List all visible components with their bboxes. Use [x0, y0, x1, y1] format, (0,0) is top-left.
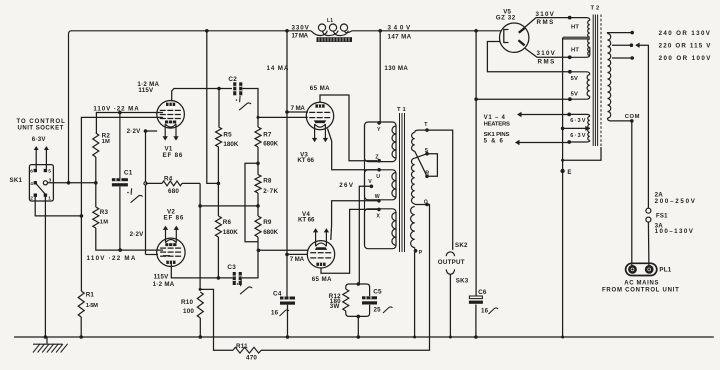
junction cathode-R8R9 node [198, 204, 202, 208]
bias network top node [357, 282, 361, 286]
wire V3 anode to Z [320, 95, 377, 161]
resistor R9 680K [255, 216, 261, 237]
wire HT top rail 330V/340V [69, 31, 502, 183]
fuse FS1 [646, 208, 651, 213]
wire T to SK2 [427, 130, 453, 250]
svg-text:S: S [425, 148, 429, 154]
V5 anode upper [519, 28, 525, 33]
terminal T [425, 128, 429, 132]
resistor R7 680K [255, 127, 261, 147]
wire V2 screen entry [163, 255, 170, 257]
svg-text:110V ·22 MA: 110V ·22 MA [87, 255, 136, 262]
wire C6 to ground [475, 305, 477, 338]
wire R8 to R9 [257, 193, 259, 216]
junction C6 node [474, 29, 478, 33]
wire V4 screen [287, 253, 308, 255]
svg-text:220 OR 115 V: 220 OR 115 V [659, 43, 712, 50]
tube V1 EF86 [157, 101, 185, 129]
svg-text:P: P [419, 250, 423, 256]
resistor R3 1M [93, 207, 99, 228]
wire R11 to Q terminal [261, 205, 430, 351]
svg-text:65 MA: 65 MA [310, 85, 330, 92]
capacitor C5 25u [358, 284, 369, 296]
mains tap 220 [612, 44, 631, 46]
pin 1 [44, 194, 47, 197]
T2 5V winding [570, 72, 590, 75]
wire V1 screen feed 110V [96, 113, 163, 134]
wire V5 upper anode to HT winding [524, 18, 568, 28]
junction R7-R8 node [256, 162, 260, 166]
svg-text:1-5M: 1-5M [86, 303, 99, 309]
svg-text:HT: HT [571, 48, 579, 54]
svg-text:16: 16 [271, 310, 279, 317]
svg-text:KT 66: KT 66 [298, 216, 315, 223]
wire V4 anode to X [321, 209, 377, 273]
wire V2 anode to C3 [171, 264, 232, 278]
svg-text:RMS: RMS [538, 58, 555, 65]
svg-text:7 MA: 7 MA [290, 256, 305, 263]
heater feed arrow lower [519, 142, 569, 144]
pin 5 [44, 169, 47, 172]
resistor R5 180K [216, 127, 222, 147]
svg-text:C1: C1 [124, 169, 133, 176]
svg-text:R6: R6 [223, 219, 232, 226]
capacitor C6 16u [469, 296, 483, 304]
tube V5 GZ32 [500, 23, 529, 52]
svg-text:T 2: T 2 [591, 6, 600, 12]
terminal Y [377, 121, 381, 125]
svg-text:180K: 180K [223, 229, 238, 236]
svg-text:110V ·22 MA: 110V ·22 MA [93, 106, 139, 113]
wire V3 screen [287, 111, 308, 113]
130MA feed to Y [379, 31, 381, 122]
resistor R12 180 3W [346, 284, 359, 289]
svg-text:340V: 340V [388, 24, 411, 31]
terminal X [377, 208, 381, 212]
transformer T1 core [400, 113, 405, 252]
svg-text:EF 86: EF 86 [164, 215, 184, 222]
terminal P [414, 248, 417, 251]
tube V4 KT66 [307, 241, 334, 268]
wire V4 grid return bypass [245, 163, 258, 242]
svg-text:130 MA: 130 MA [384, 65, 408, 72]
mains tap 200 [612, 57, 632, 59]
wire R2 to pin3 node [95, 157, 97, 183]
junction R2 bottom [94, 181, 98, 185]
T1 primary winding 3 [392, 213, 396, 246]
svg-text:1M: 1M [102, 139, 110, 145]
junction rail drop to pin3 wire [67, 181, 71, 185]
junction C1 top tap [118, 111, 122, 115]
svg-text:Y: Y [377, 127, 381, 133]
junction screen tee [561, 159, 564, 162]
junction V4 grid node [257, 249, 261, 253]
svg-text:6·3V: 6·3V [32, 136, 47, 143]
svg-text:E: E [567, 169, 571, 176]
junction C1 bottom [118, 248, 122, 252]
svg-text:2·7K: 2·7K [263, 188, 278, 195]
junction V3 screen tap [285, 110, 289, 114]
wire V5 filament to 5V winding [487, 42, 568, 72]
junction R4 left node [144, 182, 147, 185]
wire COM to PL1 [631, 121, 633, 266]
svg-text:R1: R1 [86, 292, 95, 299]
terminal U [377, 168, 381, 172]
T1 secondary winding 3 [411, 207, 415, 248]
heater feed arrow upper [521, 114, 569, 116]
transformer T2 core [593, 15, 601, 147]
svg-text:115V: 115V [138, 87, 154, 94]
link pin4 to pin1 [36, 184, 46, 195]
junction R5/R6 feed node [205, 29, 209, 33]
junction V1 anode-R5 node [217, 87, 221, 91]
T2 screen to earth [563, 147, 601, 160]
svg-text:470: 470 [246, 355, 257, 362]
T1 primary winding 2 [392, 173, 396, 198]
svg-text:KT 66: KT 66 [297, 157, 314, 164]
capacitor C4 [280, 297, 295, 305]
terminal V 26V tap [370, 185, 374, 189]
terminal E [560, 169, 564, 173]
wire V3 cathode to U [328, 129, 378, 170]
svg-text:HT: HT [571, 25, 579, 31]
wire R10 to ground [199, 318, 201, 337]
svg-text:HEATERS: HEATERS [484, 121, 511, 127]
junction V1 grid / R1 node [80, 214, 84, 218]
svg-text:R8: R8 [263, 177, 272, 184]
svg-text:6: 6 [30, 169, 33, 175]
ground chassis symbol [46, 337, 48, 344]
svg-text:100–130V: 100–130V [655, 228, 694, 235]
resistor R1 1.5M [80, 216, 82, 291]
wire 5V return to HT+ node [476, 98, 568, 100]
plug PL1 [626, 263, 657, 275]
svg-text:FROM CONTROL UNIT: FROM CONTROL UNIT [602, 288, 679, 294]
svg-text:3W: 3W [330, 303, 340, 310]
T1 primary winding 1 [392, 126, 396, 158]
svg-text:R: R [425, 170, 429, 176]
T2 6.3V winding 2 [588, 128, 590, 140]
svg-text:R5: R5 [223, 132, 232, 139]
terminal COM [608, 118, 632, 121]
svg-text:SK3: SK3 [456, 278, 469, 285]
junction R6 bottom node [217, 276, 221, 280]
svg-text:L1: L1 [327, 18, 333, 24]
wire fuse to PL1 [647, 222, 650, 265]
svg-text:100: 100 [183, 308, 194, 315]
junction V1 cathode corner [144, 129, 148, 133]
wire HT to R5/R6 junction [207, 31, 219, 184]
wire bias to ground [357, 316, 359, 337]
svg-text:GZ 32: GZ 32 [496, 15, 516, 22]
wire pin1 to ground [44, 197, 46, 337]
svg-text:330V: 330V [292, 25, 310, 32]
junction R8-R9 node [256, 204, 260, 208]
output jack SK2 [446, 252, 454, 256]
svg-text:FS1: FS1 [656, 213, 668, 219]
terminal S [425, 152, 429, 156]
svg-text:65 MA: 65 MA [312, 276, 332, 283]
svg-text:5 & 6: 5 & 6 [484, 139, 504, 145]
svg-text:6·3V: 6·3V [570, 118, 586, 124]
wire P to ground [414, 251, 416, 337]
svg-text:R9: R9 [263, 219, 272, 226]
wire ground rail [14, 336, 714, 338]
svg-text:V1 – 4: V1 – 4 [484, 115, 506, 121]
T1 primary section 2 outline [365, 170, 397, 200]
wire R4 right to cathode node [199, 183, 201, 290]
svg-text:240 OR 130V: 240 OR 130V [659, 30, 711, 37]
wire pin3 output 330V to control unit [48, 182, 96, 184]
svg-text:UNIT SOCKET: UNIT SOCKET [18, 126, 64, 132]
wire C3 to V4 grid node [242, 250, 258, 278]
svg-text:C5: C5 [373, 289, 382, 296]
svg-text:W: W [375, 194, 380, 200]
resistor R4 680 [146, 182, 163, 184]
svg-text:6·3V: 6·3V [570, 133, 586, 139]
svg-text:180K: 180K [223, 141, 238, 148]
T1 secondary winding 1 [415, 130, 427, 132]
secondary cross link to R [415, 151, 427, 176]
capacitor C3 [233, 272, 242, 285]
svg-text:14 MA: 14 MA [267, 65, 289, 72]
svg-text:115V: 115V [154, 273, 170, 280]
svg-text:7 MA: 7 MA [291, 105, 306, 112]
svg-text:RMS: RMS [537, 19, 554, 26]
svg-text:1·2 MA: 1·2 MA [153, 281, 175, 288]
wire R3 to V2 grid line [96, 228, 163, 250]
wire C2 to V3 grid [242, 89, 307, 118]
T1 primary left edge [364, 125, 366, 245]
svg-text:26V: 26V [339, 182, 354, 189]
svg-text:C4: C4 [273, 291, 282, 298]
terminal Q [415, 203, 427, 206]
svg-text:R10: R10 [181, 299, 193, 306]
T2 HT winding upper [570, 18, 590, 21]
resistor R2 1M [93, 133, 99, 157]
V5 anode lower [518, 40, 524, 45]
S-R series link [427, 154, 437, 177]
wire R6 leads [217, 183, 219, 216]
wire shared cathode line [145, 131, 147, 255]
resistor R11 470 [233, 347, 261, 353]
pin 4 [34, 181, 37, 184]
junction V4 screen tap [285, 253, 289, 257]
svg-text:C3: C3 [227, 264, 236, 271]
resistor R6 180K [215, 216, 221, 237]
wire V1 anode to C2 [172, 89, 232, 102]
svg-text:680K: 680K [263, 140, 278, 147]
junction R10 top node [199, 288, 202, 291]
pin 2 [34, 194, 37, 197]
wire V5 lower anode to HT winding [524, 48, 568, 57]
wire R2 node to R3 [95, 183, 97, 207]
svg-text:2·2V: 2·2V [127, 128, 142, 135]
wire selector to fuse [636, 45, 648, 208]
inductor L1 [311, 24, 352, 36]
svg-text:OUTPUT: OUTPUT [438, 259, 465, 266]
output jack SK3 [446, 269, 454, 274]
svg-text:X: X [376, 213, 380, 219]
svg-text:SK2: SK2 [455, 242, 468, 249]
svg-text:5: 5 [48, 169, 51, 175]
T1 primary section 1 outline [365, 122, 397, 162]
svg-text:U: U [376, 174, 380, 180]
svg-text:2·2V: 2·2V [130, 231, 145, 238]
heater arrow SK1 pin5 [45, 150, 47, 169]
terminal R [425, 175, 429, 179]
pin 3 [43, 181, 47, 185]
svg-text:R3: R3 [100, 209, 109, 216]
svg-text:16: 16 [481, 308, 489, 315]
svg-text:680: 680 [168, 188, 179, 195]
wire C4 to ground [287, 305, 289, 337]
svg-text:R11: R11 [236, 343, 248, 350]
wire V1 cathode tap 2.2V [146, 130, 158, 132]
svg-text:EF 86: EF 86 [163, 152, 183, 159]
wire pin2 to V1 grid line [35, 197, 81, 216]
terminal W [377, 199, 381, 203]
bias network bottom node [357, 315, 361, 319]
wire V4 grid [258, 249, 307, 251]
pin 6 [34, 169, 37, 172]
tube V3 KT66 [306, 102, 333, 129]
svg-text:SK1: SK1 [10, 177, 23, 184]
svg-text:R4: R4 [164, 175, 173, 182]
svg-text:1: 1 [48, 195, 51, 201]
svg-text:C2: C2 [228, 76, 237, 83]
svg-text:R7: R7 [263, 131, 272, 138]
svg-text:5V: 5V [571, 91, 579, 97]
tube V2 EF86 [157, 238, 185, 266]
wire V tap to R12/C5 [359, 186, 371, 284]
wire V1 grid feed [81, 117, 163, 215]
junction R5-R6 midpoint [217, 182, 221, 186]
wire C6 node HT+ [475, 31, 477, 296]
svg-text:COM: COM [625, 114, 640, 120]
resistor R10 100 [197, 292, 203, 318]
svg-text:V: V [368, 179, 372, 185]
svg-text:PL1: PL1 [659, 266, 671, 273]
T2 HT winding lower [563, 38, 590, 40]
svg-text:T 1: T 1 [397, 107, 407, 113]
svg-text:5V: 5V [571, 76, 579, 82]
V5 filament [504, 30, 509, 43]
svg-text:310V: 310V [536, 11, 555, 18]
junction 330V node [285, 29, 289, 33]
T2 6.3V winding 1 [569, 114, 590, 116]
svg-text:C6: C6 [478, 289, 487, 296]
svg-text:TO CONTROL: TO CONTROL [17, 119, 66, 125]
wire screen feed line 14MA [286, 31, 288, 297]
wire V4 cathode to W [331, 201, 377, 240]
heater arrow SK1 pin6 [35, 150, 37, 169]
svg-text:AC MAINS: AC MAINS [624, 280, 659, 286]
svg-text:200 OR 100V: 200 OR 100V [659, 55, 712, 62]
wire SK3 to ground [449, 274, 451, 337]
terminal Z [377, 159, 381, 163]
T1 secondary winding 2 [411, 158, 414, 204]
wire feedback drop [200, 289, 233, 350]
secondary cross link from S [415, 154, 427, 159]
T2 mains primary winding [608, 32, 609, 35]
svg-text:25: 25 [374, 306, 382, 313]
svg-text:147 MA: 147 MA [388, 34, 412, 41]
junction V3 grid-R7 node [257, 116, 260, 119]
mains tap 240 [608, 32, 633, 34]
svg-text:1M: 1M [100, 220, 108, 226]
svg-text:SK1 PINS: SK1 PINS [484, 132, 510, 138]
svg-text:2: 2 [30, 195, 33, 201]
svg-text:310V: 310V [537, 50, 556, 57]
resistor R8 2.7K [255, 175, 261, 194]
svg-text:17 MA: 17 MA [292, 33, 309, 40]
T2 6.3V centre tap with arrow [563, 127, 590, 129]
junction 340V node [378, 29, 382, 33]
svg-text:4: 4 [30, 181, 33, 187]
wire R9 to V4 grid node [257, 237, 259, 250]
resistor R5 bottom lead [217, 147, 219, 183]
wire grid network to cathode node [200, 205, 258, 207]
resistor R5 top lead [218, 89, 220, 128]
earth line from centre taps [562, 38, 564, 338]
T1 primary section 3 outline [365, 209, 397, 249]
svg-text:Q: Q [424, 199, 428, 205]
wire R7 to R8 [257, 147, 259, 175]
capacitor C2 [233, 82, 242, 95]
capacitor C1 [112, 178, 128, 186]
svg-text:680K: 680K [263, 229, 278, 236]
socket SK1 [29, 165, 53, 201]
